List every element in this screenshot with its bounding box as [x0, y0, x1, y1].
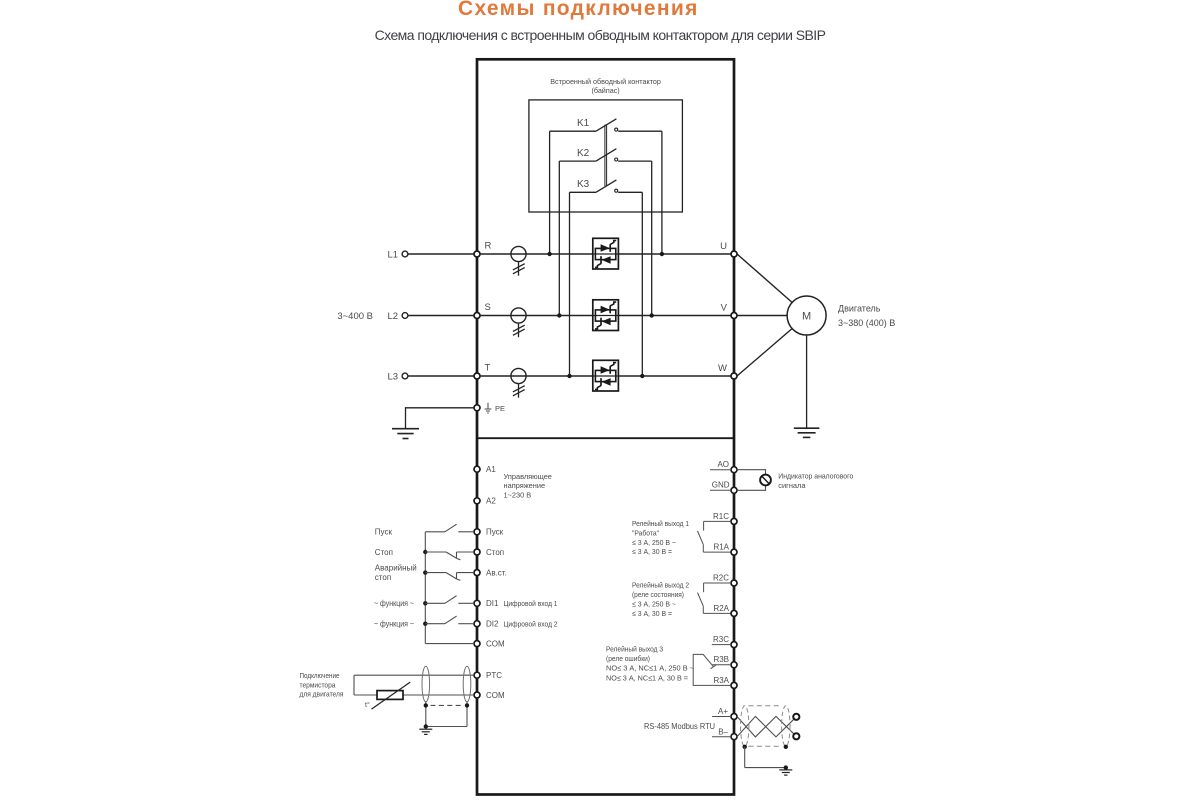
terminal R1C	[731, 518, 737, 524]
svg-text:t°: t°	[365, 701, 370, 709]
svg-text:R1A: R1A	[713, 543, 729, 552]
svg-text:≤ 3 А, 30 В =: ≤ 3 А, 30 В =	[632, 609, 672, 618]
svg-text:термистора: термистора	[300, 680, 337, 689]
svg-text:K2: K2	[577, 148, 590, 159]
RS-485 end terminal top	[793, 714, 799, 720]
svg-text:≤ 3 А, 250 В ~: ≤ 3 А, 250 В ~	[632, 599, 676, 608]
contact K1 fixed terminal	[615, 128, 618, 131]
contact K1 left wire	[550, 130, 596, 132]
svg-text:Релейный выход 2: Релейный выход 2	[632, 581, 689, 590]
svg-text:S: S	[485, 302, 491, 313]
contact K3 right wire	[618, 191, 642, 193]
switch Пуск (NO)	[425, 524, 474, 532]
terminal R3B	[731, 662, 737, 668]
svg-text:NO≤ 3 А, NC≤1 А, 250 В ~: NO≤ 3 А, NC≤1 А, 250 В ~	[606, 664, 694, 673]
svg-text:≤ 3 А, 30 В =: ≤ 3 А, 30 В =	[632, 547, 672, 556]
control terminal Пуск y=531.8	[474, 529, 480, 535]
svg-text:B–: B–	[718, 727, 728, 736]
svg-text:Стоп: Стоп	[375, 548, 393, 557]
PE symbol and label	[485, 403, 505, 413]
contact K1 right drop wire to output	[661, 131, 663, 254]
contact K2 right drop wire to output	[651, 161, 653, 315]
node bus DI1	[423, 601, 427, 605]
internal wire T row	[480, 375, 731, 377]
twisted pair mark left	[422, 666, 430, 702]
terminal R on drive edge	[474, 251, 480, 257]
svg-text:K3: K3	[577, 179, 590, 190]
twisted pair mark right	[463, 666, 471, 702]
svg-text:PTC: PTC	[486, 671, 502, 680]
relay contact 1	[698, 521, 732, 552]
internal wire S row	[480, 315, 731, 317]
svg-text:V: V	[721, 303, 728, 314]
svg-text:≤ 3 А, 250 В ~: ≤ 3 А, 250 В ~	[632, 538, 676, 547]
svg-text:Подключение: Подключение	[300, 671, 340, 680]
svg-text:R2C: R2C	[713, 573, 729, 582]
terminal R3C	[731, 642, 737, 648]
control terminal Ав.ст. y=572.6	[474, 570, 480, 576]
svg-text:R: R	[485, 241, 492, 252]
cable sheath dashed top	[749, 705, 783, 707]
twisted pair RS-485 wire A	[737, 716, 796, 737]
svg-text:GND: GND	[712, 481, 730, 490]
svg-text:DI1: DI1	[486, 599, 499, 608]
motor ground wire	[806, 335, 808, 428]
switch DI1 (NO)	[425, 596, 474, 604]
svg-text:1~230 В: 1~230 В	[504, 490, 532, 499]
svg-text:3~380 (400) В: 3~380 (400) В	[838, 318, 895, 328]
node K1 left junction	[547, 252, 551, 256]
contact K2 fixed terminal	[615, 158, 618, 161]
svg-text:Аварийный: Аварийный	[375, 563, 417, 572]
svg-text:Управляющее: Управляющее	[504, 472, 552, 481]
node K1 right junction	[660, 252, 664, 256]
node K3 right junction	[640, 374, 644, 378]
RS shield drain wires	[745, 747, 786, 768]
thyristor module phase T	[593, 360, 619, 391]
node K2 right junction	[650, 313, 654, 317]
internal wire R row	[480, 253, 731, 255]
ground earth PE	[392, 428, 419, 430]
wires to analog indicator	[737, 470, 766, 475]
contact K1 left drop wire to row	[549, 131, 551, 254]
ground earth RS shield	[779, 769, 792, 771]
node bus Аварийный стоп	[423, 570, 427, 574]
control terminal Стоп y=552.0	[474, 549, 480, 555]
switch Аварийный стоп (NC)	[425, 573, 474, 581]
terminal A+	[731, 714, 737, 720]
switch DI2 (NO)	[425, 616, 474, 624]
frequency drive enclosure box	[477, 59, 734, 794]
wire L3 to drive	[408, 375, 474, 377]
contact K2 left drop wire to row	[558, 161, 560, 315]
control terminal COM y=695.0	[474, 692, 480, 698]
node RS shield left	[743, 745, 747, 749]
svg-text:A1: A1	[486, 465, 496, 474]
svg-text:(байпас): (байпас)	[591, 86, 619, 95]
cable sheath dashed bottom	[749, 745, 783, 747]
cable sheath dashed left	[741, 706, 749, 747]
svg-text:для двигателя: для двигателя	[300, 690, 344, 699]
svg-text:R3C: R3C	[713, 635, 729, 644]
svg-text:напряжение: напряжение	[504, 481, 546, 490]
control terminal PTC y=675.2	[474, 672, 480, 678]
cable sheath dashed right	[782, 706, 790, 747]
svg-text:Пуск: Пуск	[486, 528, 504, 537]
control terminal DI2 y=623.7	[474, 621, 480, 627]
terminal R2C	[731, 580, 737, 586]
wire bus to COM	[425, 643, 474, 645]
current sensor on phase T	[511, 368, 526, 397]
svg-text:Индикатор аналогового: Индикатор аналогового	[778, 471, 853, 480]
svg-text:U: U	[720, 241, 727, 252]
node shield ground	[424, 724, 428, 728]
terminal T on drive edge	[474, 373, 480, 379]
thermistor RT	[372, 682, 411, 709]
node shield left	[424, 703, 428, 707]
node bus DI2	[423, 622, 427, 626]
svg-text:"Работа": "Работа"	[632, 528, 659, 537]
svg-text:COM: COM	[486, 691, 505, 700]
control terminal A1 y=469.2	[474, 466, 480, 472]
svg-text:L2: L2	[388, 311, 399, 322]
relay contact 3 changeover	[693, 654, 716, 685]
svg-text:DI2: DI2	[486, 620, 499, 629]
terminal B-	[731, 734, 737, 740]
svg-text:(реле ошибки): (реле ошибки)	[606, 654, 650, 663]
node K3 left junction	[567, 374, 571, 378]
contact K1 blade	[596, 119, 616, 131]
svg-text:R3A: R3A	[713, 676, 729, 685]
svg-text:(реле состояния): (реле состояния)	[632, 590, 684, 599]
wire L2 to drive	[408, 315, 474, 317]
PE wire	[406, 408, 475, 429]
ground earth motor	[794, 427, 820, 429]
bypass contactor box	[529, 100, 683, 212]
page title	[458, 0, 698, 21]
node bus Стоп	[423, 550, 427, 554]
control terminal DI1 y=603.3	[474, 600, 480, 606]
node shield right	[465, 703, 469, 707]
svg-text:NO≤ 3 А, NC≤1 А, 30 В =: NO≤ 3 А, NC≤1 А, 30 В =	[606, 673, 688, 682]
svg-text:Цифровой вход 1: Цифровой вход 1	[504, 599, 558, 608]
svg-text:T: T	[485, 363, 491, 374]
terminal R2A	[731, 610, 737, 616]
twisted pair RS-485 wire B	[737, 716, 796, 737]
node RS shield right	[784, 745, 788, 749]
svg-text:K1: K1	[577, 118, 590, 129]
svg-text:COM: COM	[486, 640, 505, 649]
wire L1 to drive	[408, 253, 474, 255]
shield dashed link	[431, 704, 463, 706]
switch Стоп (NC)	[425, 552, 474, 560]
contact K2 left wire	[559, 160, 596, 162]
contact K3 left drop wire to row	[569, 192, 571, 376]
svg-text:R3B: R3B	[713, 655, 729, 664]
current sensor on phase S	[511, 308, 526, 337]
terminal S on drive edge	[474, 313, 480, 319]
svg-text:Релейный выход 3: Релейный выход 3	[606, 645, 663, 654]
svg-text:L3: L3	[388, 371, 399, 382]
analog signal indicator	[760, 475, 771, 486]
contact K3 right drop wire to output	[641, 192, 643, 376]
svg-text:A2: A2	[486, 497, 496, 506]
mechanical link of K1 K2 K3	[604, 125, 606, 186]
shield drain wires thermistor	[426, 702, 467, 727]
svg-text:W: W	[718, 363, 727, 374]
svg-text:L1: L1	[388, 249, 399, 260]
thyristor module phase S	[593, 300, 619, 331]
contact K3 fixed terminal	[615, 189, 618, 192]
motor M	[787, 296, 826, 335]
svg-text:Стоп: Стоп	[486, 548, 504, 557]
svg-text:~ функция ~: ~ функция ~	[374, 620, 414, 629]
page subtitle	[0, 27, 1200, 43]
svg-text:M: M	[802, 311, 811, 323]
svg-text:Цифровой вход 2: Цифровой вход 2	[504, 620, 558, 629]
current sensor on phase R	[511, 246, 526, 275]
terminal R3A	[731, 682, 737, 688]
svg-text:Двигатель: Двигатель	[838, 304, 881, 314]
svg-text:A+: A+	[718, 707, 728, 716]
power/control divider line	[477, 437, 734, 439]
contact K1 right wire	[618, 130, 662, 132]
contact K2 blade	[596, 149, 616, 161]
svg-text:Пуск: Пуск	[375, 528, 393, 537]
node K2 left junction	[557, 313, 561, 317]
svg-text:~ функция ~: ~ функция ~	[374, 599, 414, 608]
external common bus wire	[424, 532, 426, 644]
contact K3 blade	[596, 180, 616, 192]
node RS shield ground	[784, 765, 788, 769]
thyristor module phase R	[593, 238, 619, 269]
wire W to motor	[737, 329, 792, 377]
svg-text:RS-485 Modbus RTU: RS-485 Modbus RTU	[644, 722, 715, 731]
contact K2 right wire	[618, 160, 652, 162]
svg-text:R1C: R1C	[713, 512, 729, 521]
ground earth thermistor shield	[419, 728, 432, 730]
terminal GND	[731, 487, 737, 493]
svg-text:Ав.ст.: Ав.ст.	[486, 569, 507, 578]
control terminal A2 y=500.8	[474, 498, 480, 504]
terminal R1A	[731, 549, 737, 555]
contact K3 left wire	[570, 191, 597, 193]
svg-text:AO: AO	[717, 460, 729, 469]
svg-text:Релейный выход 1: Релейный выход 1	[632, 519, 689, 528]
thermistor loop wires	[354, 675, 474, 695]
terminal AO	[731, 467, 737, 473]
svg-text:PE: PE	[495, 404, 505, 413]
svg-text:стоп: стоп	[375, 573, 391, 582]
terminal PE on drive edge	[474, 405, 480, 411]
svg-text:3~400 В: 3~400 В	[337, 311, 373, 322]
wire U to motor	[737, 254, 792, 303]
RS-485 end terminal bottom	[793, 733, 799, 739]
control terminal COM y=643.6	[474, 641, 480, 647]
svg-text:сигнала: сигнала	[778, 481, 806, 490]
wire V to motor	[737, 315, 787, 317]
svg-text:R2A: R2A	[713, 604, 729, 613]
relay contact 2	[698, 583, 732, 613]
